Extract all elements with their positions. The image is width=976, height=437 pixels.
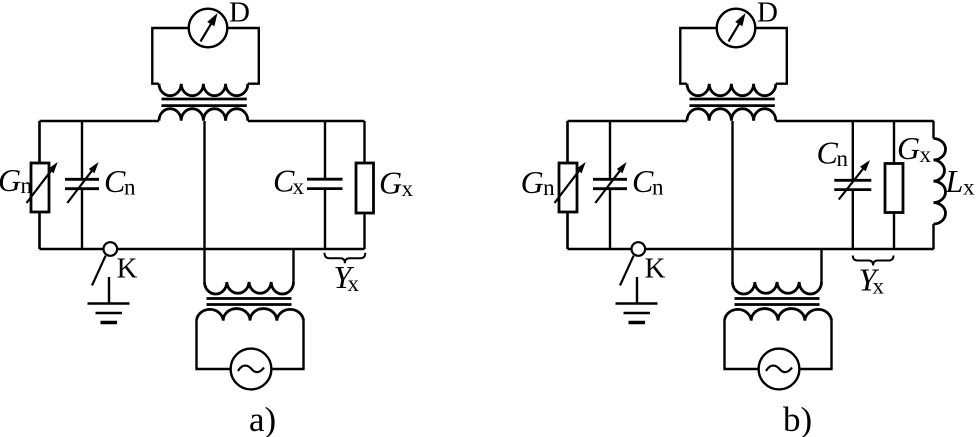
- svg-text:x: x: [348, 271, 360, 296]
- wire top rail left: [40, 120, 160, 122]
- wire top rail right: [248, 120, 365, 122]
- resistor G_x: [893, 121, 895, 249]
- transformer T1 secondary winding: [687, 109, 776, 121]
- svg-text:x: x: [402, 176, 414, 201]
- detector loop rectangle: [152, 28, 188, 84]
- svg-text:n: n: [21, 173, 33, 198]
- wire middle branch (T1 tap to T2): [203, 121, 205, 282]
- transformer T2 secondary winding: [197, 309, 304, 321]
- svg-text:x: x: [963, 175, 975, 200]
- generator loop rectangle: [725, 321, 759, 369]
- svg-text:x: x: [873, 274, 885, 299]
- inductor L_x: [932, 121, 934, 249]
- detector D meter: [717, 9, 756, 48]
- svg-text:b): b): [783, 400, 812, 437]
- wire bottom rail: [40, 248, 104, 250]
- wire top rail left: [568, 120, 688, 122]
- wire T2 primary right lead: [820, 249, 822, 282]
- generator (sine source): [759, 349, 800, 390]
- resistor G_x: [363, 121, 365, 249]
- svg-text:n: n: [124, 175, 136, 200]
- svg-text:D: D: [757, 0, 778, 29]
- switch K: [632, 242, 646, 256]
- detector D meter: [189, 9, 228, 48]
- svg-text:G: G: [379, 165, 402, 201]
- svg-text:n: n: [652, 175, 664, 200]
- svg-text:a): a): [249, 400, 276, 437]
- transformer T2 secondary winding: [725, 309, 832, 321]
- wire left edge: [566, 121, 568, 249]
- transformer T1 primary winding: [159, 84, 248, 96]
- transformer T2 core: [207, 297, 292, 300]
- svg-text:x: x: [920, 142, 932, 167]
- svg-text:L: L: [945, 163, 964, 199]
- resistor G_n: [31, 163, 49, 212]
- detector loop rectangle: [680, 28, 716, 84]
- transformer T1 secondary winding: [159, 109, 248, 121]
- brace Y_x: [853, 256, 894, 266]
- brace Y_x: [325, 253, 366, 263]
- generator loop rectangle: [197, 321, 231, 369]
- wire left edge: [38, 121, 40, 249]
- wire G_n branch: [566, 121, 568, 249]
- capacitor C_x: [324, 121, 326, 249]
- svg-text:K: K: [117, 253, 138, 285]
- transformer T1 core: [162, 98, 247, 101]
- svg-text:x: x: [293, 174, 305, 199]
- transformer T2 primary winding: [205, 282, 294, 294]
- svg-text:n: n: [837, 146, 849, 171]
- ground: [636, 277, 638, 303]
- wire bottom rail: [568, 248, 632, 250]
- transformer T1 core: [690, 98, 775, 101]
- svg-text:C: C: [817, 135, 839, 171]
- wire G_n branch: [38, 121, 40, 249]
- capacitor C_n (variable, unknown arm): [852, 121, 854, 249]
- transformer T2 core: [735, 297, 820, 300]
- switch K: [104, 242, 118, 256]
- transformer T1 primary winding: [687, 84, 776, 96]
- capacitor C_n (variable): [81, 121, 83, 249]
- resistor G_n: [559, 163, 577, 212]
- wire T2 primary right lead: [292, 249, 294, 282]
- capacitor C_n (variable): [609, 121, 611, 249]
- svg-text:G: G: [897, 130, 920, 166]
- svg-text:D: D: [229, 0, 250, 29]
- svg-text:C: C: [104, 163, 126, 199]
- svg-text:C: C: [632, 163, 654, 199]
- ground: [108, 277, 110, 303]
- svg-text:G: G: [0, 162, 21, 198]
- wire middle branch (T1 tap to T2): [731, 121, 733, 282]
- generator (sine source): [231, 349, 272, 390]
- wire top rail right: [776, 120, 934, 122]
- svg-text:n: n: [543, 175, 555, 200]
- svg-text:G: G: [521, 164, 544, 200]
- svg-text:K: K: [645, 253, 666, 285]
- transformer T2 primary winding: [733, 282, 822, 294]
